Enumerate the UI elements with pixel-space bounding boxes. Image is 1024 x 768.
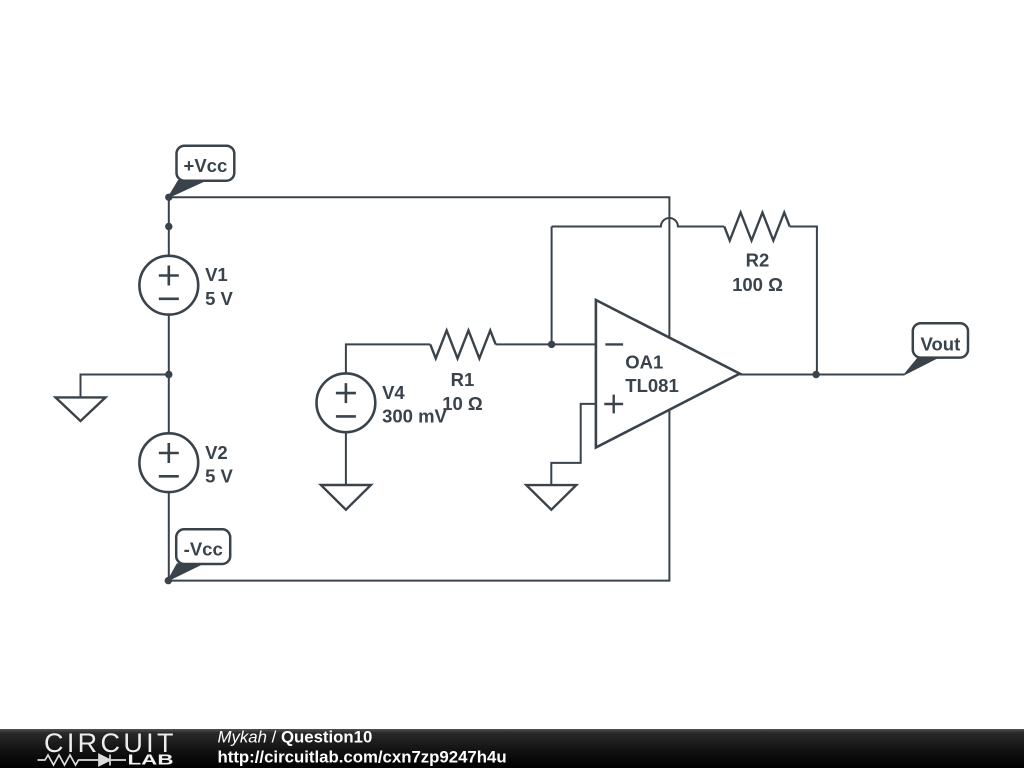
svg-text:5 V: 5 V (205, 465, 233, 486)
resistor R2 (724, 213, 789, 241)
svg-text:10 Ω: 10 Ω (442, 393, 483, 414)
svg-text:300 mV: 300 mV (382, 406, 447, 427)
wire V4 top to R1 left (346, 344, 430, 373)
wire V4 bottom to ground (345, 432, 347, 485)
ground GND2 op-amp plus input (526, 485, 576, 510)
junction node A at +Vcc (165, 194, 172, 201)
svg-text:5 V: 5 V (205, 288, 233, 309)
junction node B above V1 (165, 223, 172, 230)
net flag Vout (905, 323, 968, 374)
svg-text:+Vcc: +Vcc (184, 155, 228, 176)
wire op-amp non-inverting input staircase to ground (551, 404, 596, 485)
net flag +Vcc (169, 146, 235, 198)
wire feedback vertical from node E (551, 227, 553, 345)
svg-text:TL081: TL081 (625, 375, 678, 396)
wire mid node to left ground (81, 375, 169, 398)
svg-text:100 Ω: 100 Ω (732, 274, 783, 295)
wire bottom -Vcc rail (169, 410, 670, 581)
junction node E feedback tap (548, 341, 555, 348)
svg-text:-Vcc: -Vcc (184, 539, 223, 560)
svg-text:R1: R1 (451, 369, 475, 390)
junction node C between V1 and V2 (165, 371, 172, 378)
logo resistor-diode glyph (38, 755, 127, 766)
net flag -Vcc (168, 529, 230, 580)
footer bar (0, 729, 1024, 768)
svg-text:OA1: OA1 (625, 352, 663, 373)
ground GND1 left (56, 397, 106, 421)
wire R2 right down to output node (790, 227, 817, 375)
resistor R1 (430, 330, 495, 358)
voltage source V4 (317, 373, 376, 432)
svg-text:V1: V1 (205, 264, 228, 285)
junction node F output tap (812, 371, 819, 378)
junction node D at -Vcc (165, 577, 172, 584)
wire top +Vcc rail (169, 197, 670, 337)
svg-text:http://circuitlab.com/cxn7zp92: http://circuitlab.com/cxn7zp9247h4u (218, 748, 507, 767)
ground GND3 under V4 (321, 485, 371, 510)
wire +Vcc node to V1 top pin (168, 197, 170, 256)
op-amp OA1 inverting pin minus sign (605, 343, 623, 345)
wire V1 bottom to V2 top (168, 315, 170, 434)
wire V2 bottom to -Vcc node (168, 492, 170, 581)
svg-text:V2: V2 (205, 442, 228, 463)
op-amp OA1 triangle (596, 300, 740, 448)
svg-text:Mykah / Question10: Mykah / Question10 (218, 728, 373, 747)
wire op-amp output to Vout (740, 374, 905, 376)
svg-text:V4: V4 (382, 382, 405, 403)
svg-text:R2: R2 (746, 249, 770, 270)
svg-text:LAB: LAB (128, 753, 174, 768)
voltage source V2 (139, 433, 198, 492)
wire R1 right to op-amp inverting input (496, 343, 596, 345)
voltage source V1 (139, 256, 198, 315)
svg-text:Vout: Vout (921, 334, 961, 355)
op-amp OA1 non-inverting pin plus sign (604, 395, 623, 414)
wire feedback horizontal with hop over power wire (552, 218, 725, 227)
